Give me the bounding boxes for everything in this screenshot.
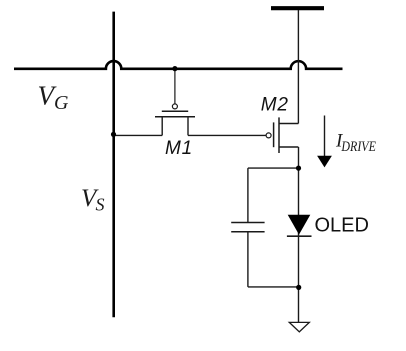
svg-text:S: S xyxy=(96,195,105,215)
svg-text:M1: M1 xyxy=(165,138,193,159)
svg-text:G: G xyxy=(54,92,69,114)
svg-text:DRIVE: DRIVE xyxy=(341,139,376,155)
svg-text:OLED: OLED xyxy=(315,214,369,236)
svg-text:M2: M2 xyxy=(261,94,289,115)
